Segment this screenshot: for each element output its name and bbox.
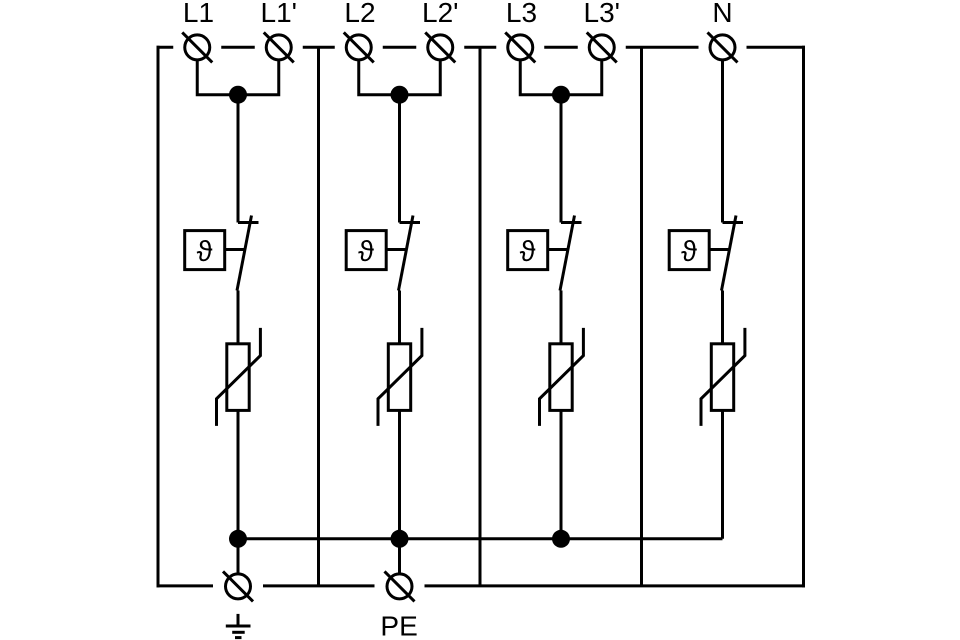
svg-text:ϑ: ϑ: [197, 236, 213, 268]
wire thermal link L3: [548, 248, 568, 251]
varistor RV2 stroke: [378, 328, 422, 426]
ground: [226, 614, 251, 638]
switch L3 blade: [560, 216, 575, 291]
svg-text:L2': L2': [422, 0, 459, 28]
svg-text:L1: L1: [183, 0, 214, 28]
terminal N: [708, 32, 738, 62]
wire bottom rail segment 2: [263, 584, 375, 587]
wire bottom rail segment 1: [157, 584, 214, 587]
wire L1 terminal pair to node: [197, 61, 279, 95]
switch N blade: [722, 216, 737, 291]
varistor RV3 stroke: [540, 328, 584, 426]
wire top rail segment 4: [383, 46, 417, 49]
svg-text:ϑ: ϑ: [520, 236, 536, 268]
thermal sensor box L3: [508, 231, 548, 270]
wire L3 terminal pair to node: [520, 61, 602, 95]
wire varistor L1 to bus: [237, 410, 240, 538]
wire PE bus: [238, 537, 723, 540]
node L1 junction: [229, 86, 247, 104]
wire top rail segment 8: [747, 46, 806, 49]
svg-text:ϑ: ϑ: [358, 236, 374, 268]
wire thermal link L2: [386, 248, 406, 251]
wire N terminal to disconnector: [721, 61, 724, 223]
wire node L1 to disconnector: [237, 95, 240, 223]
svg-text:ϑ: ϑ: [681, 236, 697, 268]
wire top rail segment 3: [303, 46, 335, 49]
svg-text:L3: L3: [506, 0, 537, 28]
wire divider 3: [640, 47, 643, 586]
wire disconnector L2 to varistor: [398, 291, 401, 345]
wire divider 1: [317, 47, 320, 586]
wire thermal link L1: [225, 248, 245, 251]
switch L2 blade: [399, 216, 414, 291]
wire divider 2: [479, 47, 482, 586]
terminal L3': [587, 32, 617, 62]
varistor RV4 stroke: [701, 328, 745, 426]
terminal L2': [425, 32, 455, 62]
wire node L2 to disconnector: [398, 95, 401, 223]
wire disconnector L3 to varistor: [560, 291, 563, 345]
switch L1 fixed contact stub: [238, 221, 259, 224]
thermal sensor box N: [669, 231, 709, 270]
switch L3 fixed contact stub: [561, 221, 582, 224]
terminal ground: [223, 571, 253, 601]
wire thermal link N: [709, 248, 729, 251]
varistor RV3 body: [550, 344, 572, 411]
wire node L3 to disconnector: [560, 95, 563, 223]
wire bottom rail segment 3: [425, 584, 806, 587]
wire varistor N to bus: [721, 410, 724, 538]
wire top rail segment 7: [626, 46, 699, 49]
switch N fixed contact stub: [723, 221, 744, 224]
svg-text:L2: L2: [344, 0, 375, 28]
thermal sensor box L2: [346, 231, 386, 270]
varistor RV2 body: [388, 344, 410, 411]
terminal PE: [385, 571, 415, 601]
svg-text:L1': L1': [261, 0, 298, 28]
node L2 junction: [391, 86, 409, 104]
wire L2 terminal pair to node: [359, 61, 441, 95]
svg-text:L3': L3': [584, 0, 621, 28]
wire disconnector L1 to varistor: [237, 291, 240, 345]
wire varistor L2 to bus: [398, 410, 401, 538]
varistor RV4 body: [711, 344, 733, 411]
wire top rail segment 1: [157, 46, 174, 49]
wire top rail segment 2: [221, 46, 255, 49]
wire top rail segment 6: [544, 46, 578, 49]
terminal L1: [182, 32, 212, 62]
thermal sensor box L1: [185, 231, 225, 270]
terminal L3: [505, 32, 535, 62]
svg-text:PE: PE: [380, 611, 417, 640]
wire top rail segment 5: [464, 46, 496, 49]
wire right border: [802, 46, 805, 588]
svg-text:N: N: [712, 0, 732, 28]
node L3 junction: [552, 86, 570, 104]
varistor RV1 stroke: [217, 328, 261, 426]
wire left border: [157, 46, 160, 588]
terminal L1': [264, 32, 294, 62]
node bus L3 junction: [552, 530, 570, 548]
varistor RV1 body: [227, 344, 249, 411]
terminal L2: [344, 32, 374, 62]
wire varistor L3 to bus: [560, 410, 563, 538]
switch L1 blade: [237, 216, 252, 291]
wire bus to ground terminal: [237, 539, 240, 573]
node bus L2 junction: [391, 530, 409, 548]
wire bus to PE terminal: [398, 539, 401, 573]
switch L2 fixed contact stub: [400, 221, 421, 224]
wire disconnector N to varistor: [721, 291, 724, 345]
node bus L1 junction: [229, 530, 247, 548]
